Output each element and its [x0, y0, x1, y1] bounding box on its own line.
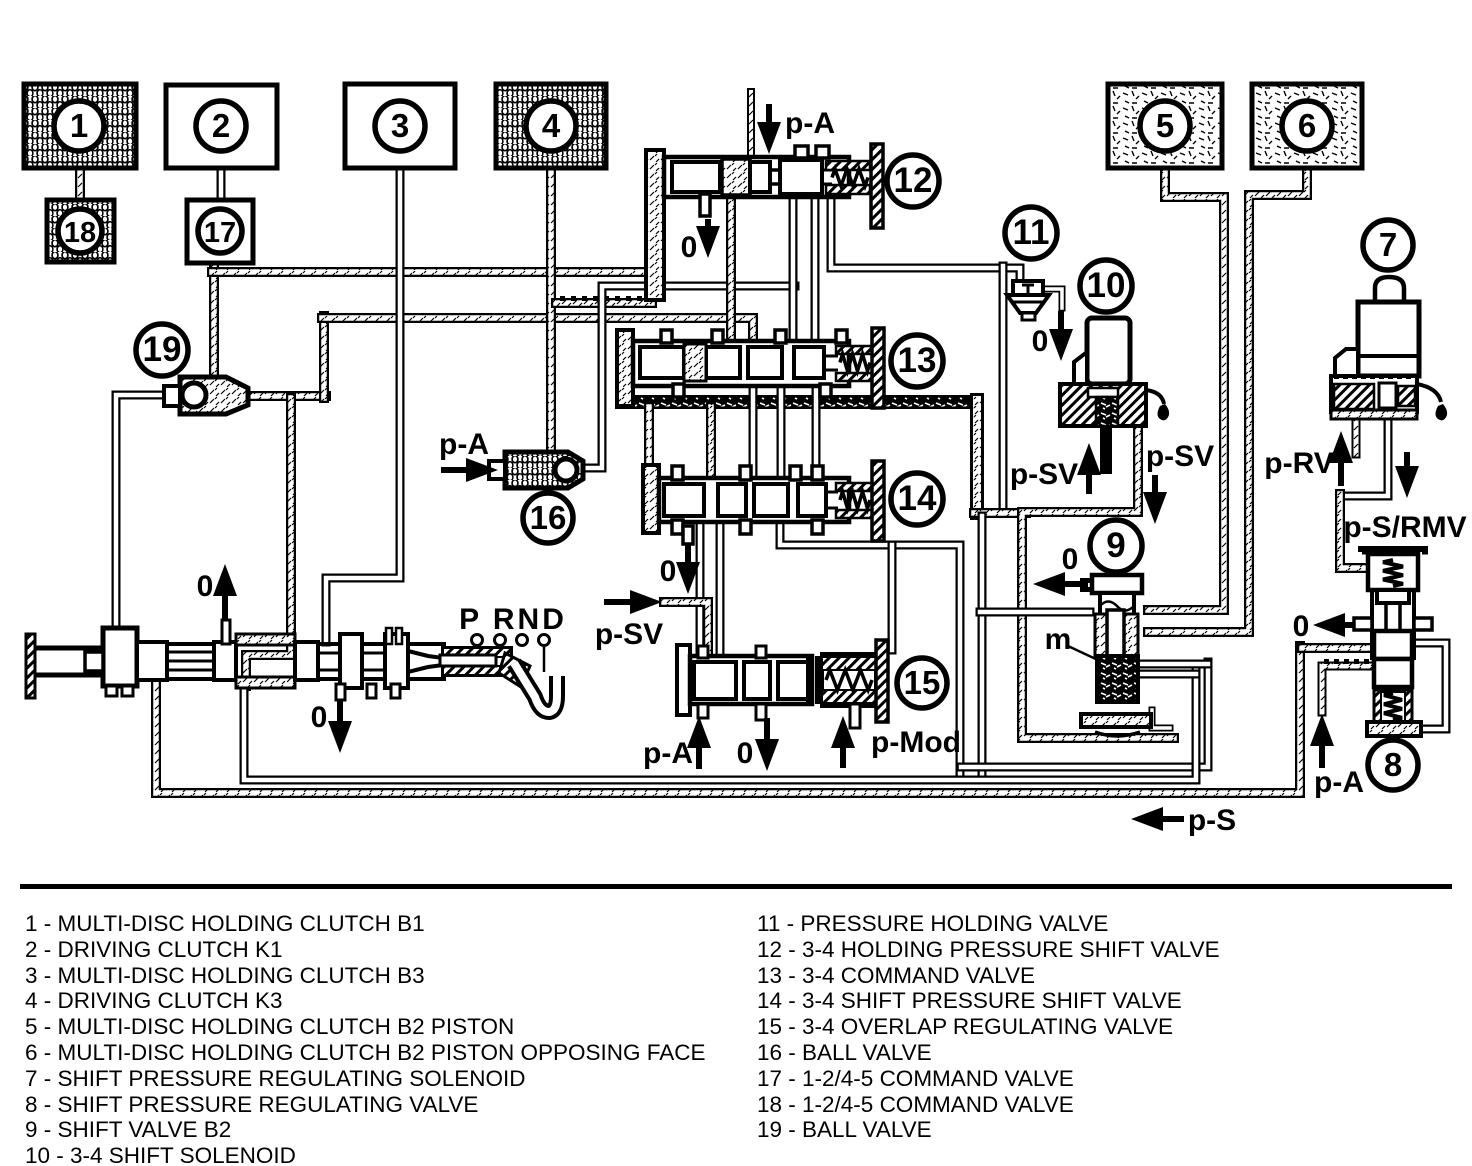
callout circle 19	[136, 324, 188, 376]
svg-text:m: m	[1045, 623, 1072, 656]
svg-text:16 - BALL VALVE: 16 - BALL VALVE	[757, 1040, 932, 1065]
svg-text:11 - PRESSURE HOLDING VALVE: 11 - PRESSURE HOLDING VALVE	[757, 911, 1108, 936]
svg-text:3: 3	[391, 107, 409, 144]
svg-text:p-RV: p-RV	[1264, 447, 1333, 480]
pipe valve8 left out	[1302, 643, 1370, 653]
selector lever	[440, 648, 557, 712]
castellation teeth valve8 stub	[1324, 659, 1329, 664]
svg-text:8: 8	[1384, 746, 1402, 783]
arrow p-SV up at solenoid 10	[1077, 443, 1101, 494]
pipe riser 291 to manual valve	[246, 398, 291, 686]
pipe valve17 down to ball valve 19	[209, 261, 219, 379]
svg-text:5: 5	[1156, 107, 1174, 144]
callout circle 3	[375, 101, 425, 151]
valve 15 (3-4 overlap regulating valve)	[677, 640, 888, 728]
svg-text:1 - MULTI-DISC HOLDING CLUTCH: 1 - MULTI-DISC HOLDING CLUTCH B1	[25, 911, 425, 936]
pipe valve9 out upper	[1136, 660, 1208, 669]
svg-text:12 - 3-4 HOLDING PRESSURE SHIF: 12 - 3-4 HOLDING PRESSURE SHIFT VALVE	[757, 937, 1220, 962]
svg-text:p-A: p-A	[643, 737, 693, 770]
pipe net B horizontal	[322, 318, 753, 340]
arrow p-Mod up	[831, 716, 855, 768]
pipe valve9 out lower	[1136, 670, 1196, 679]
pipe valve13 drop 753	[749, 389, 758, 474]
callout circle 15	[897, 658, 947, 708]
svg-text:p-A: p-A	[439, 428, 489, 461]
callout circle 5	[1140, 101, 1190, 151]
svg-text:0: 0	[197, 570, 214, 603]
pipe heavy bar drop p-SV	[970, 400, 984, 513]
manual selector valve	[26, 620, 446, 700]
pipe clutch2 to valve17	[217, 168, 226, 202]
pipe valve9 base elbow	[1152, 710, 1170, 728]
svg-text:1: 1	[70, 107, 88, 144]
arrow 0 below valve 15	[755, 718, 779, 771]
pipe rail1 white	[961, 662, 1208, 767]
svg-text:5 - MULTI-DISC HOLDING CLUTCH: 5 - MULTI-DISC HOLDING CLUTCH B2 PISTON	[25, 1014, 514, 1039]
ball valve 16	[489, 452, 583, 488]
pipe net A horizontal to valve 12 wall	[212, 267, 655, 277]
arrow p-SV down right	[1143, 475, 1167, 524]
pipe valve12 hatched drain	[726, 194, 736, 338]
svg-text:7 - SHIFT PRESSURE REGULATING: 7 - SHIFT PRESSURE REGULATING SOLENOID	[25, 1066, 526, 1091]
pipe clutch5 line	[1148, 168, 1224, 610]
clutch box 2 (K1)	[166, 85, 277, 168]
clutch box 3 (B3)	[345, 84, 455, 168]
callout circle 12	[887, 155, 939, 207]
pipe branch p-A to valve12 wall	[556, 298, 652, 308]
svg-text:14 - 3-4 SHIFT PRESSURE SHIFT: 14 - 3-4 SHIFT PRESSURE SHIFT VALVE	[757, 988, 1182, 1013]
detent circles PRND	[472, 635, 483, 646]
arrow p-A into ball 16	[441, 458, 498, 482]
pipe valve12 drain a	[789, 194, 798, 338]
pipe valve12 to valve11	[831, 196, 1020, 284]
clutch box 1 (B1)	[24, 84, 136, 168]
legend text	[25, 911, 1220, 1166]
arrow p-RV up	[1329, 431, 1353, 486]
svg-text:0: 0	[1062, 543, 1079, 576]
svg-text:12: 12	[894, 161, 933, 200]
svg-text:2: 2	[212, 107, 230, 144]
svg-text:15 - 3-4 OVERLAP REGULATING VA: 15 - 3-4 OVERLAP REGULATING VALVE	[757, 1014, 1173, 1039]
svg-text:0: 0	[1293, 610, 1310, 643]
svg-text:19 - BALL VALVE: 19 - BALL VALVE	[757, 1117, 932, 1142]
pipe rail2 white	[244, 670, 1196, 780]
arrow p-SV into valve 15 circuit	[604, 590, 662, 614]
svg-text:0: 0	[1032, 325, 1049, 358]
pressure holding valve 11	[1007, 281, 1049, 320]
callout circle 1	[54, 101, 104, 151]
valve box 18	[47, 200, 114, 262]
arrow p-A below valve 15	[687, 716, 711, 769]
pipe valve14 right elbow long	[780, 526, 960, 778]
pipe valve13 drop 781	[777, 389, 786, 474]
svg-text:8 - SHIFT PRESSURE REGULATING: 8 - SHIFT PRESSURE REGULATING VALVE	[25, 1092, 478, 1117]
callout circle 7	[1363, 220, 1413, 270]
svg-text:14: 14	[898, 479, 937, 518]
svg-text:19: 19	[143, 330, 182, 369]
pipe ball19 left line	[116, 395, 172, 630]
pipe ball16 out riser net C	[583, 286, 795, 468]
svg-text:p-A: p-A	[1314, 766, 1364, 799]
pipe p-A supply stub valve 12	[747, 92, 755, 156]
callout circle 13	[891, 335, 943, 387]
pipe to valve9 left port	[980, 608, 1090, 617]
pipe rail3 hatched	[156, 646, 1300, 793]
svg-text:6 - MULTI-DISC HOLDING CLUTCH: 6 - MULTI-DISC HOLDING CLUTCH B2 PISTON …	[25, 1040, 706, 1065]
svg-text:p-S/RMV: p-S/RMV	[1343, 511, 1466, 544]
callout circle 17	[198, 209, 242, 253]
svg-text:17: 17	[204, 217, 236, 249]
3-4 shift solenoid 10	[1060, 318, 1169, 474]
pipe riser to net B	[319, 316, 329, 398]
svg-text:13: 13	[898, 341, 937, 380]
shift pressure regulating valve 8	[1354, 546, 1432, 736]
arrow 0 below manual valve	[328, 700, 352, 753]
callout circle 4	[526, 101, 576, 151]
svg-text:p-A: p-A	[785, 107, 835, 140]
pipe solenoid7 to pSRMV	[1344, 418, 1388, 496]
pipe valve8 right loop	[1414, 643, 1446, 729]
svg-text:0: 0	[311, 701, 328, 734]
pipe p-SV inlet to valve15	[664, 602, 708, 654]
pipe drop x982 to rails	[978, 516, 987, 778]
svg-text:4: 4	[542, 107, 561, 144]
pipe solenoid7 left stub	[1352, 418, 1361, 454]
callout circle 10	[1080, 260, 1132, 312]
pipe valve11 spill	[1041, 289, 1062, 308]
pipe long drop x1003	[999, 266, 1008, 509]
svg-text:p-SV: p-SV	[1010, 458, 1078, 491]
pipe valve8 p-A castellated stub	[1322, 666, 1372, 712]
pipe p-SV enclosure	[1022, 428, 1174, 738]
svg-text:0: 0	[681, 231, 698, 264]
pipe p-SV link to enclosure	[974, 508, 1026, 518]
callout circle 2	[196, 101, 246, 151]
callout circle 14	[891, 473, 943, 525]
pipe clutch4 line down to ball 16	[546, 168, 556, 455]
m leader line	[1068, 646, 1100, 661]
detent leader line	[543, 646, 546, 672]
arrow 0 below valve 11	[1049, 311, 1073, 361]
pipe valve14 drop 700	[696, 526, 705, 654]
svg-text:18: 18	[64, 217, 96, 249]
svg-text:p-SV: p-SV	[595, 618, 663, 651]
arrow 0 exhaust valve 12	[696, 219, 720, 258]
svg-text:16: 16	[530, 499, 567, 536]
arrow 0 at valve 9	[1033, 572, 1088, 596]
svg-text:18 - 1-2/4-5 COMMAND VALVE: 18 - 1-2/4-5 COMMAND VALVE	[757, 1092, 1074, 1117]
svg-text:p-S: p-S	[1188, 804, 1236, 837]
arrow down at solenoid 7 drain	[1395, 452, 1419, 498]
svg-text:15: 15	[904, 664, 941, 701]
pipe clutch3 line down	[326, 168, 400, 642]
pipe ball19 right line	[246, 391, 326, 401]
legend separator line	[20, 884, 1452, 889]
svg-text:0: 0	[660, 555, 677, 588]
svg-text:9: 9	[1106, 526, 1125, 565]
svg-text:4 - DRIVING CLUTCH K3: 4 - DRIVING CLUTCH K3	[25, 988, 283, 1013]
shift pressure regulating solenoid 7	[1331, 277, 1447, 420]
clutch box 6 (B2 opposing)	[1252, 84, 1362, 168]
ball valve 19	[164, 377, 248, 414]
pipe valve14 drop 720	[716, 526, 725, 654]
callout circle 8	[1368, 740, 1418, 790]
clutch box 4 (K3)	[496, 84, 606, 168]
pipe heavy bar under valve 13	[615, 395, 972, 409]
svg-text:17 - 1-2/4-5 COMMAND VALVE: 17 - 1-2/4-5 COMMAND VALVE	[757, 1066, 1074, 1091]
svg-text:P RND: P RND	[459, 603, 567, 636]
castellation teeth branch	[560, 296, 565, 301]
svg-text:10: 10	[1087, 266, 1126, 305]
svg-text:7: 7	[1379, 226, 1397, 263]
valve 13 (3-4 command valve)	[617, 328, 884, 408]
pipe pSRMV down to valve8	[1340, 494, 1366, 568]
svg-text:0: 0	[737, 737, 754, 770]
pipe valve13 left drop to valve14	[644, 407, 654, 474]
pipe valve12 drain b	[811, 194, 820, 338]
arrow p-A down into valve 12	[757, 104, 781, 154]
svg-text:3 - MULTI-DISC HOLDING CLUTCH: 3 - MULTI-DISC HOLDING CLUTCH B3	[25, 963, 425, 988]
clutch box 5 (B2 piston)	[1108, 84, 1222, 168]
pipe clutch6 line	[1148, 168, 1307, 632]
callout circle 9	[1090, 520, 1142, 572]
arrow 0 at valve 8	[1313, 613, 1353, 637]
svg-text:p-SV: p-SV	[1146, 440, 1214, 473]
svg-text:p-Mod: p-Mod	[871, 726, 961, 759]
pipe valve13 drop 816	[812, 389, 821, 474]
pipe clutch1 to valve18	[75, 168, 85, 202]
pipe drop to valve15 spring housing	[888, 545, 897, 650]
callout circle 11	[1005, 207, 1057, 259]
pipe valve13 drop h711	[706, 407, 716, 474]
svg-text:11: 11	[1013, 213, 1050, 252]
valve 12 (3-4 holding pressure shift valve)	[646, 144, 883, 300]
svg-text:2 - DRIVING CLUTCH K1: 2 - DRIVING CLUTCH K1	[25, 937, 283, 962]
svg-text:6: 6	[1298, 107, 1316, 144]
arrow 0 below valve 14	[676, 545, 700, 594]
callout circle 16	[523, 493, 573, 543]
arrow p-A up at valve 8	[1310, 714, 1334, 768]
arrow p-S	[1131, 807, 1184, 831]
valve box 17	[187, 200, 253, 263]
svg-text:9 - SHIFT VALVE B2: 9 - SHIFT VALVE B2	[25, 1117, 231, 1142]
svg-text:10 - 3-4 SHIFT SOLENOID: 10 - 3-4 SHIFT SOLENOID	[25, 1143, 296, 1166]
svg-text:13 - 3-4 COMMAND VALVE: 13 - 3-4 COMMAND VALVE	[757, 963, 1035, 988]
arrow 0 up left area	[213, 564, 237, 621]
shift valve B2 (9)	[1080, 575, 1151, 736]
callout circle 18	[58, 209, 102, 253]
callout circle 6	[1282, 101, 1332, 151]
valve 14 (3-4 shift pressure shift valve)	[643, 461, 884, 544]
